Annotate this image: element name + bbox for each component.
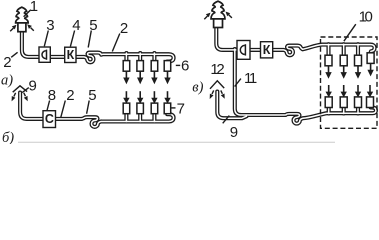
box K (diagram v) <box>261 42 273 58</box>
symbol 9 right arrow <box>24 93 26 96</box>
svg-text:2: 2 <box>66 87 74 104</box>
wire: tap stub row 6 (outline) <box>124 53 128 62</box>
svg-text:9: 9 <box>29 77 37 94</box>
wire: tap stub row 6 (outline) <box>138 53 142 62</box>
filter symbol inside v filter box <box>240 45 245 54</box>
subscriber outlet box <box>123 61 130 72</box>
leader label 9 <box>22 88 29 93</box>
leader label 9 (v) <box>223 116 230 124</box>
outlet arrow down into box <box>139 91 141 98</box>
wire: diagram a feeder line antenna-to-taps with cable loop 5 and end-fed outlet (outline) <box>22 30 174 63</box>
filter symbol inside box 3 <box>42 51 46 59</box>
svg-text:4: 4 <box>72 17 80 34</box>
box 8 C (diagram b) <box>43 111 56 128</box>
outlet arrow down <box>139 72 141 78</box>
outlet arrow down into box <box>369 85 371 92</box>
subscriber outlet box <box>137 61 144 72</box>
svg-text:С: С <box>45 112 54 126</box>
outlet arrow down into box <box>167 91 169 98</box>
wire: diagram v top feeder line with loop and end-fed outlet (core) <box>216 29 374 56</box>
wire: tap stub row 6 (core) <box>153 53 155 62</box>
incoming wave arrow right of antenna 1 <box>31 28 34 31</box>
leader label 2 (b) <box>61 101 66 118</box>
svg-text:10: 10 <box>359 8 373 25</box>
outlet arrow down into box <box>125 91 127 98</box>
incoming wave arrow left of v antenna <box>204 16 207 19</box>
wire: tap stub row 7 (outline) <box>124 113 128 122</box>
wire: tap stub row 7 (core) <box>153 113 155 122</box>
antenna (diagram v) mast tree <box>211 1 225 19</box>
wire: riser 11 and diagram v bottom line with loop and end-fed outlet (outline) <box>235 49 376 124</box>
leader label 8 <box>47 101 50 111</box>
subscriber outlet box <box>123 103 130 114</box>
subscriber outlet box <box>340 97 347 108</box>
symbol 9 left arrow <box>14 93 16 97</box>
wire: tap stub row 7 (core) <box>139 113 141 122</box>
wire: diagram v top feeder line with loop and end-fed outlet (outline) <box>216 29 374 56</box>
svg-text:8: 8 <box>48 87 56 104</box>
outlet arrow down into box <box>357 85 359 92</box>
wire: riser 11 and diagram v bottom line with loop and end-fed outlet (core) <box>235 49 376 124</box>
outlet arrow down into box <box>153 91 155 98</box>
wire: tap stub v top row (outline) <box>356 44 360 56</box>
wire: tap stub row 6 (core) <box>139 53 141 62</box>
wire: cable 12 from adjacent riser joining bottom line (outline) <box>217 92 246 119</box>
outlet arrow down <box>343 66 345 72</box>
wire: tap stub row 6 (outline) <box>152 53 156 62</box>
svg-text:в): в) <box>192 80 203 96</box>
incoming wave arrow right of v antenna <box>229 15 232 18</box>
wire: tap stub v top row (outline) <box>326 44 330 56</box>
wire: tap stub v top row (core) <box>343 44 345 56</box>
wire: diagram b feeder line with cable loop 5 and end-fed outlet (core) <box>20 93 174 127</box>
outlet arrow down <box>167 72 169 78</box>
incoming wave arrow left of antenna 1 <box>10 28 13 31</box>
subscriber outlet box <box>151 61 158 72</box>
subscriber outlet box <box>325 97 332 108</box>
filter box (diagram v) <box>237 41 250 60</box>
subscriber outlet box <box>137 103 144 114</box>
leader label 5 <box>88 31 91 48</box>
symbol 9: input from another stairwell (diagram b) chevron <box>13 86 27 92</box>
svg-text:а): а) <box>1 72 13 88</box>
subscriber outlet box <box>151 103 158 114</box>
leader label 5 (b) <box>87 101 90 114</box>
wire: diagram b feeder line with cable loop 5 and end-fed outlet (outline) <box>20 93 174 127</box>
svg-text:9: 9 <box>230 124 238 141</box>
dash of label 6 <box>176 64 180 66</box>
symbol 12 left arrow <box>212 90 214 94</box>
outlet arrow down <box>370 64 372 70</box>
svg-text:2: 2 <box>120 20 128 37</box>
svg-text:б): б) <box>2 130 14 144</box>
svg-text:5: 5 <box>88 87 96 104</box>
subscriber outlet box <box>325 55 332 66</box>
subscriber outlet box <box>355 97 362 108</box>
leader label 2 to downlead <box>11 52 17 57</box>
leader label 3 <box>44 31 48 47</box>
svg-text:7: 7 <box>177 101 185 118</box>
subscriber outlet box <box>367 97 374 108</box>
wire: tap stub v bottom row (outline) <box>356 107 360 113</box>
svg-text:6: 6 <box>181 58 189 75</box>
wire: tap stub v top row (core) <box>328 44 330 56</box>
svg-text:1: 1 <box>30 0 38 15</box>
scan smudge along bottom edge <box>18 141 335 143</box>
wire: tap stub v top row (core) <box>357 44 359 56</box>
wire: tap stub v bottom row (outline) <box>327 107 331 113</box>
svg-text:К: К <box>263 43 271 57</box>
wire: tap stub v top row (outline) <box>342 44 346 56</box>
outlet arrow down into box <box>343 85 345 92</box>
wire: tap stub row 7 (outline) <box>138 113 142 122</box>
dash of label 7 <box>171 107 175 109</box>
leader label 4 <box>70 31 74 47</box>
antenna (diagram v) base box <box>214 19 223 28</box>
wire: tap stub v bottom row (outline) <box>342 107 346 113</box>
subscriber outlet box <box>164 103 171 114</box>
wire: tap stub row 6 (core) <box>125 53 127 62</box>
wire: tap stub row 7 (outline) <box>152 113 156 122</box>
wire: cable 12 from adjacent riser joining bottom line (core) <box>217 92 246 119</box>
wire: tap stub v bottom row (core) <box>357 107 359 113</box>
outlet arrow down <box>357 66 359 72</box>
wire: tap stub v bottom row (core) <box>343 107 345 113</box>
antenna 1 base box <box>18 23 26 32</box>
antenna 1 (diagram a) mast tree <box>16 7 29 23</box>
subscriber outlet box <box>367 53 374 64</box>
outlet arrow down <box>125 72 127 78</box>
svg-text:2: 2 <box>3 54 11 71</box>
leader label 11 <box>235 79 241 87</box>
outlet arrow down into box <box>328 85 330 92</box>
svg-text:5: 5 <box>89 17 97 34</box>
leader label 2 to line <box>112 34 120 52</box>
outlet arrow down <box>153 72 155 78</box>
symbol 12: feed to adjacent entrance (diagram v) chevron <box>210 81 224 89</box>
wire: tap stub v bottom row (core) <box>328 107 330 113</box>
leader to antenna 1 <box>24 10 31 17</box>
subscriber outlet box <box>164 61 171 72</box>
dashed enclosure 10 (apartment group) <box>321 37 378 128</box>
leader label 10 <box>344 24 356 41</box>
subscriber outlet box <box>340 55 347 66</box>
wire: diagram a feeder line antenna-to-taps with cable loop 5 and end-fed outlet (core) <box>22 30 174 63</box>
svg-text:12: 12 <box>210 61 224 78</box>
wire: tap stub row 7 (core) <box>125 113 127 122</box>
outlet arrow down <box>328 66 330 72</box>
subscriber outlet box <box>355 55 362 66</box>
svg-text:3: 3 <box>46 17 54 34</box>
filter box 3 (diagram a) <box>39 47 50 62</box>
svg-text:К: К <box>67 48 75 62</box>
symbol 12 right arrow <box>221 90 223 93</box>
box 4 K (diagram a) <box>65 47 76 62</box>
